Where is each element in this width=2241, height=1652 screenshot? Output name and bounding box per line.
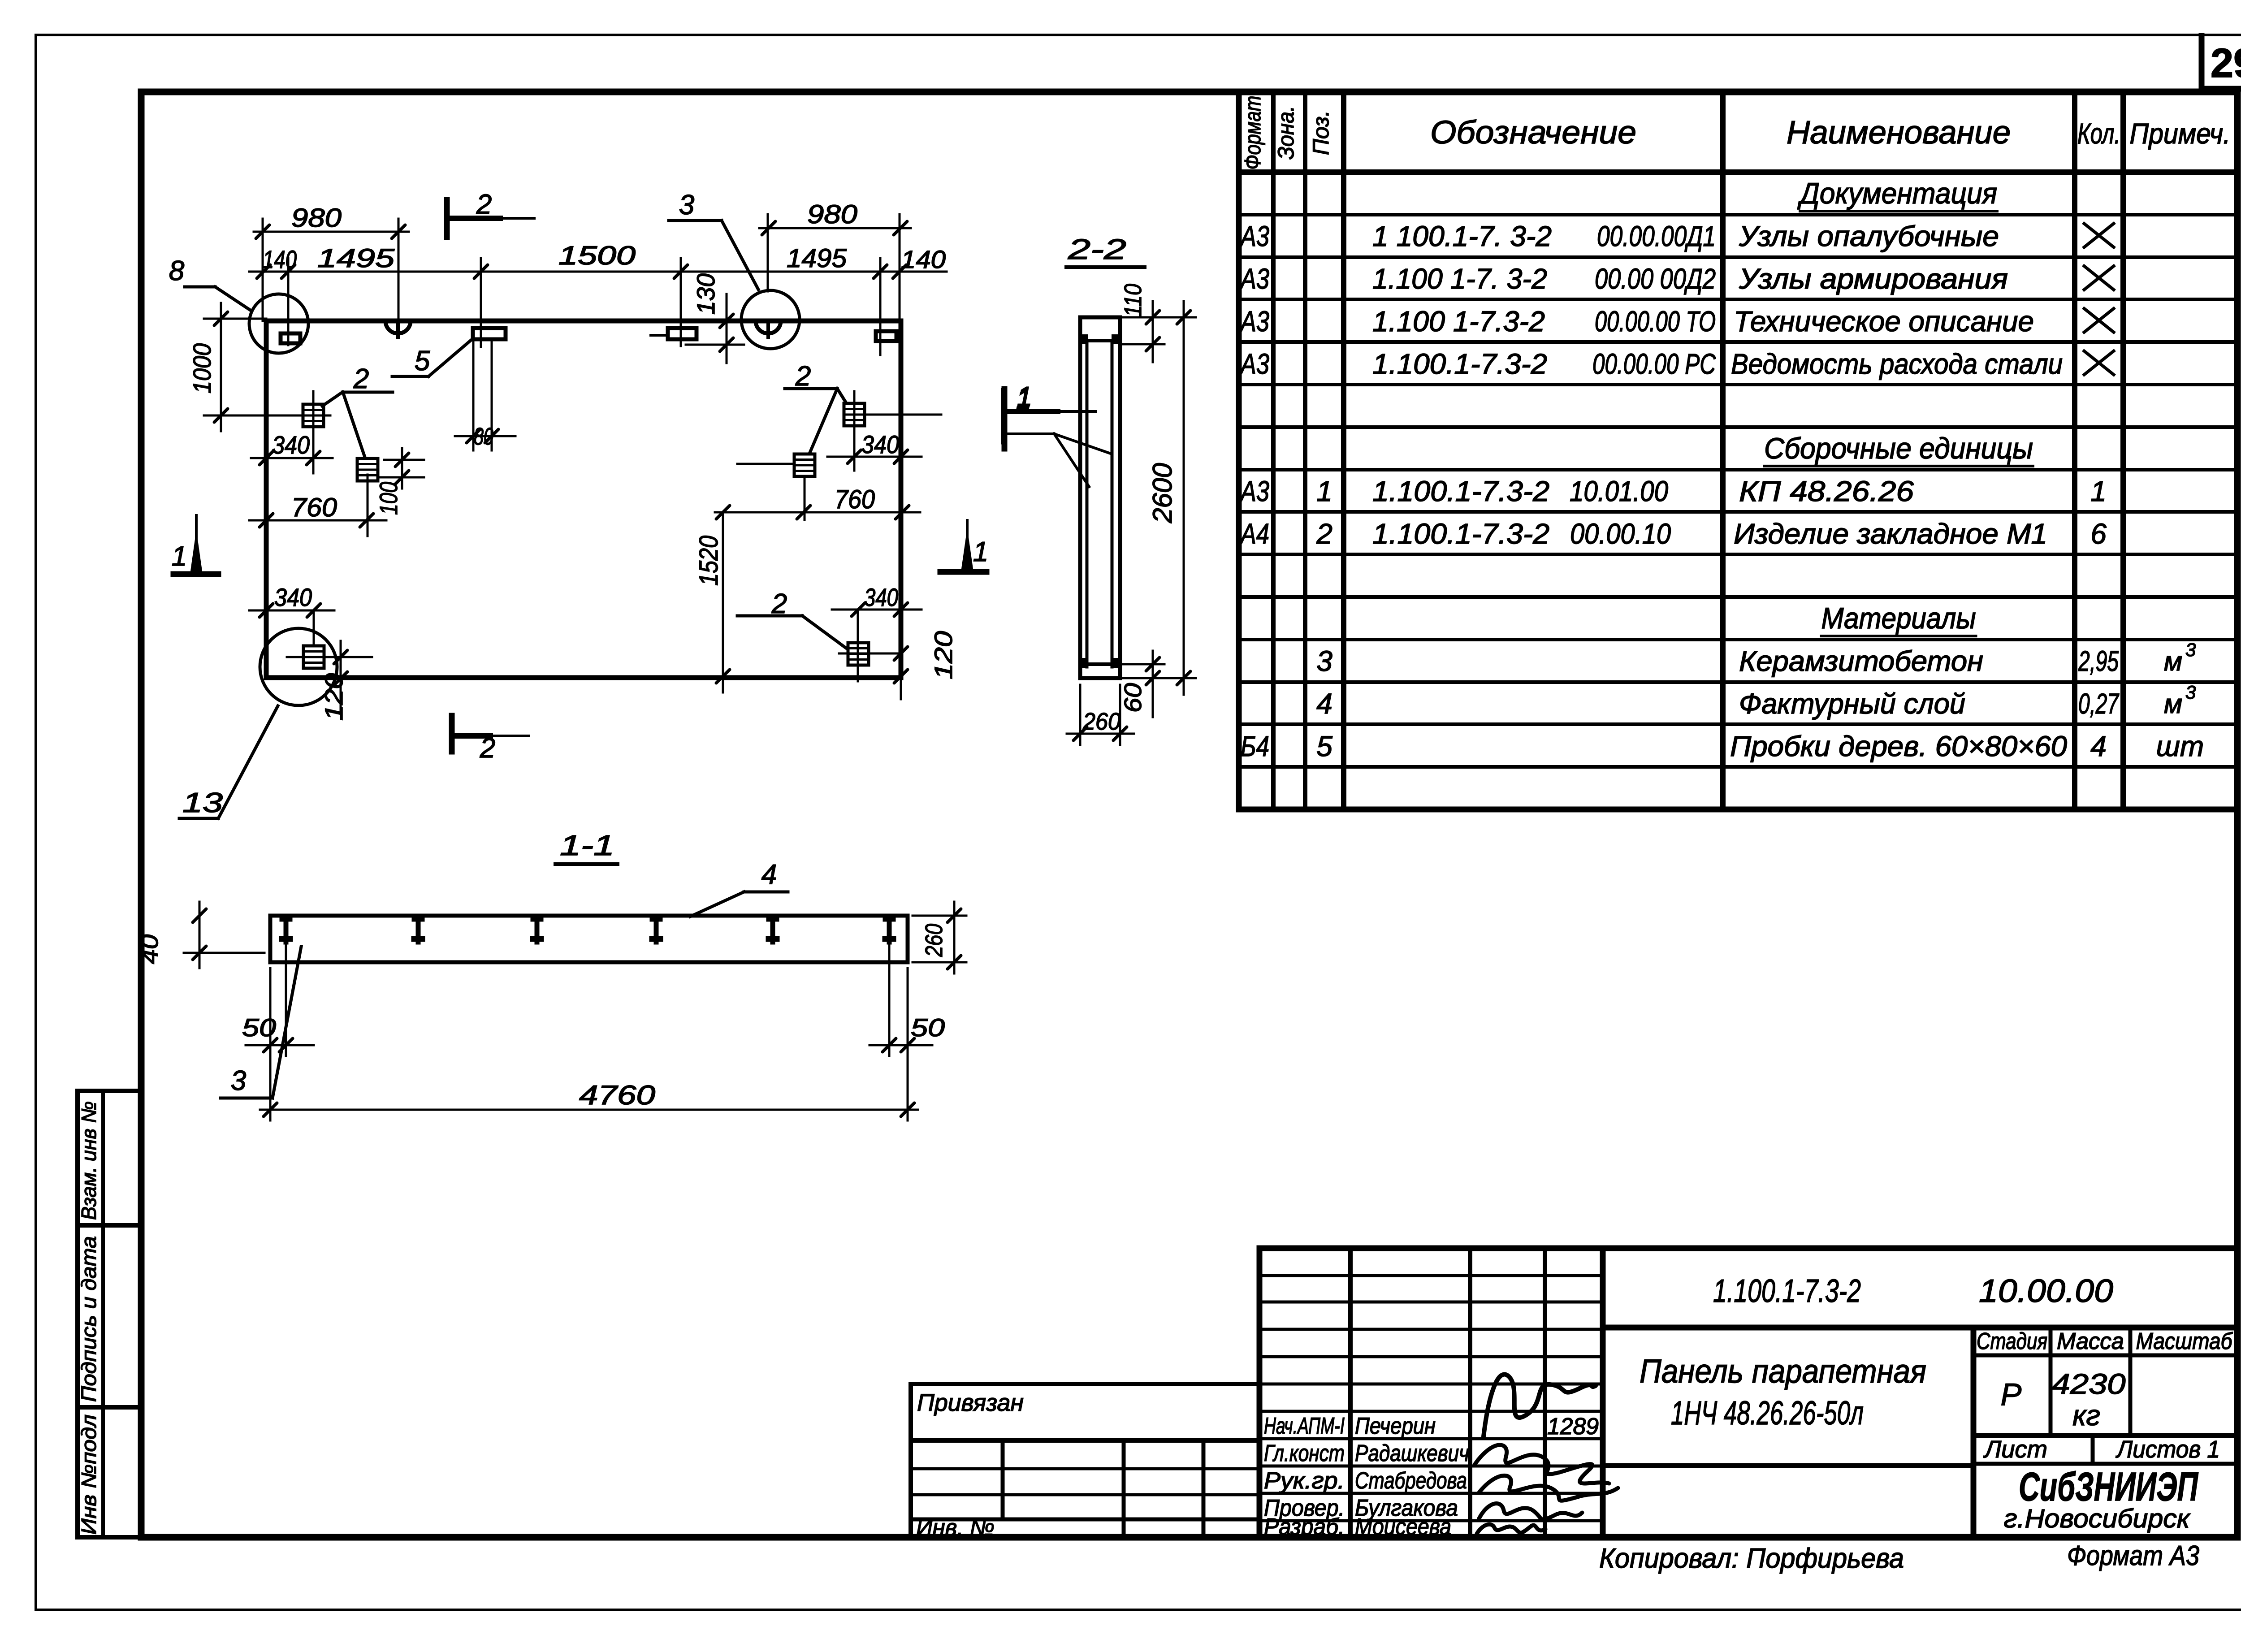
sig grid upper row line 4 [1259, 1355, 1603, 1358]
signature squiggle 4 [1479, 1504, 1582, 1520]
ext line A5 column [313, 610, 315, 644]
hatched anchor A1 [303, 404, 324, 427]
anchor plate pos5 [473, 328, 506, 339]
svg-text:Кол.: Кол. [2077, 117, 2120, 150]
svg-text:Формат: Формат [1240, 96, 1265, 170]
section 1-1 ext right [907, 968, 909, 1120]
svg-text:А3: А3 [1239, 348, 1270, 380]
section 2-2 dim 110 [1152, 301, 1154, 362]
svg-text:А3: А3 [1239, 475, 1270, 507]
svg-text:Панель парапетная: Панель парапетная [1640, 1353, 1926, 1390]
svg-text:Примеч.: Примеч. [2130, 117, 2231, 150]
section 1-1 ext anchor1 [285, 946, 287, 1056]
svg-text:1НЧ 48.26.26-50л: 1НЧ 48.26.26-50л [1671, 1394, 1864, 1431]
svg-text:Печерин: Печерин [1355, 1413, 1436, 1439]
section 2-2 outline [1080, 317, 1120, 678]
svg-text:3: 3 [2185, 682, 2196, 703]
sig grid vertical 2 [1468, 1248, 1472, 1537]
ext line 140L [287, 258, 290, 345]
sig grid lower row line 4 [1259, 1519, 1603, 1522]
svg-text:А3: А3 [1239, 263, 1270, 295]
svg-text:980: 980 [807, 200, 857, 229]
sig grid lower row line 3 [1259, 1492, 1603, 1495]
section 2-2 rebar right [1111, 341, 1114, 667]
title divider under doc number [1603, 1325, 2237, 1331]
frame bottom thick segment [141, 1534, 2237, 1541]
svg-text:1.100.1-7.3-2: 1.100.1-7.3-2 [1372, 475, 1549, 507]
svg-text:2: 2 [1316, 518, 1332, 550]
ext line panel left top [262, 219, 264, 321]
svg-text:Обозначение: Обозначение [1430, 115, 1636, 151]
svg-text:Ведомость расхода стали: Ведомость расхода стали [1731, 348, 2063, 380]
svg-text:10.01.00: 10.01.00 [1570, 475, 1668, 507]
svg-text:260: 260 [1082, 708, 1120, 735]
svg-text:0,27: 0,27 [2078, 688, 2120, 720]
svg-text:2,95: 2,95 [2078, 645, 2119, 677]
svg-text:Привязан: Привязан [917, 1389, 1024, 1416]
svg-text:Листов 1: Листов 1 [2116, 1436, 2220, 1463]
plan panel left edge [264, 321, 269, 678]
svg-text:1: 1 [1316, 475, 1332, 507]
svg-text:50: 50 [911, 1013, 945, 1042]
stadia header bottom [1973, 1354, 2237, 1358]
sig grid vertical 3 [1543, 1248, 1547, 1537]
svg-text:Сборочные единицы: Сборочные единицы [1764, 432, 2033, 465]
dim 130 [726, 294, 728, 363]
svg-text:Масштаб: Масштаб [2136, 1328, 2233, 1354]
Привязан box [911, 1384, 1259, 1440]
spec table column Примеч line [2120, 92, 2126, 809]
stadia column lines [2049, 1328, 2053, 1436]
svg-text:3: 3 [679, 190, 694, 221]
svg-text:1289: 1289 [1547, 1414, 1599, 1440]
plan panel bottom edge [266, 675, 901, 680]
ext line 140R [879, 258, 882, 355]
svg-text:980: 980 [291, 203, 342, 233]
spec table column Зона line [1271, 92, 1276, 809]
hatched anchor A6 [848, 643, 869, 665]
ext line A6 column [857, 610, 859, 681]
svg-text:Стадия: Стадия [1977, 1328, 2047, 1354]
svg-text:Пробки дерев. 60×80×60: Пробки дерев. 60×80×60 [1730, 730, 2067, 762]
svg-text:130: 130 [692, 273, 720, 315]
svg-text:Узлы армирования: Узлы армирования [1739, 263, 2008, 295]
svg-text:Узлы опалубочные: Узлы опалубочные [1739, 220, 1999, 252]
svg-text:Р: Р [2001, 1377, 2022, 1412]
svg-text:А4: А4 [1239, 518, 1269, 550]
svg-text:1: 1 [973, 536, 988, 567]
svg-text:2-2: 2-2 [1068, 233, 1126, 265]
ext line A3 row [865, 414, 941, 416]
svg-text:Инв №подл: Инв №подл [77, 1414, 100, 1535]
hatched anchor A3 [844, 403, 865, 426]
sig grid upper row line 2 [1259, 1301, 1603, 1304]
svg-text:760: 760 [291, 493, 337, 522]
svg-text:Копировал: Порфирьева: Копировал: Порфирьева [1599, 1543, 1904, 1574]
ext line 80 dim [455, 435, 515, 437]
section 2-2 dim 60 [1152, 651, 1154, 717]
page number box [2199, 36, 2205, 92]
svg-text:00.00.10: 00.00.10 [1570, 518, 1671, 550]
dim 340 left top [251, 457, 333, 459]
svg-text:3: 3 [1316, 645, 1332, 677]
spec table column Обозначение line [1341, 92, 1346, 809]
svg-text:60: 60 [1120, 683, 1146, 713]
detail circle 3 [741, 290, 800, 349]
svg-text:4: 4 [2090, 730, 2107, 762]
signature squiggle 3 [1479, 1475, 1618, 1501]
section 1-1 slab outline [270, 916, 908, 962]
Лист row bottom [1973, 1462, 2237, 1466]
svg-text:140: 140 [901, 245, 946, 273]
ext line A2 column [367, 475, 369, 536]
svg-text:Б4: Б4 [1241, 730, 1269, 762]
sig grid lower row line 2 [1259, 1465, 1603, 1468]
svg-text:кг: кг [2072, 1399, 2100, 1431]
spec table column Кол line [2072, 92, 2077, 809]
section 1-1 dim 50 left [246, 1044, 314, 1047]
svg-text:А3: А3 [1239, 305, 1270, 337]
section 2-2 dim 2600 [1183, 301, 1185, 695]
title name cell bottom line [1603, 1463, 1973, 1468]
svg-text:2: 2 [353, 363, 369, 394]
svg-text:м: м [2164, 646, 2182, 676]
svg-text:4230: 4230 [2052, 1368, 2126, 1400]
detail circle 13 [260, 628, 337, 705]
ext line A1 center column [312, 391, 315, 473]
svg-text:м: м [2164, 689, 2182, 719]
svg-text:3: 3 [2185, 639, 2196, 660]
hatched anchor A4 [794, 454, 815, 476]
dim 120 left [340, 641, 342, 714]
svg-text:120: 120 [320, 673, 348, 721]
dim 100 [401, 448, 403, 489]
svg-text:Наименование: Наименование [1787, 115, 2011, 151]
Лист divider [2091, 1436, 2095, 1464]
section 2-2 rebar left [1086, 341, 1089, 667]
svg-text:Масса: Масса [2057, 1328, 2124, 1354]
sig grid upper row line 3 [1259, 1328, 1603, 1331]
dim 340 right top [827, 456, 921, 458]
section 1-1 anchor 3 [535, 917, 540, 942]
section 2-2 dim 260 [1067, 733, 1134, 735]
svg-text:8: 8 [169, 255, 185, 286]
svg-text:13: 13 [182, 787, 223, 818]
ext line anchor A1 row [204, 415, 330, 417]
svg-text:1000: 1000 [188, 343, 216, 394]
svg-text:1 100.1-7. 3-2: 1 100.1-7. 3-2 [1372, 220, 1552, 252]
svg-text:5: 5 [415, 346, 430, 376]
svg-text:Керамзитобетон: Керамзитобетон [1739, 645, 1983, 677]
svg-text:Гл.конст: Гл.конст [1264, 1440, 1345, 1466]
signature squiggle 2 [1475, 1445, 1609, 1483]
svg-text:340: 340 [861, 430, 899, 458]
svg-text:1.100.1-7.3-2: 1.100.1-7.3-2 [1372, 348, 1547, 380]
svg-text:Изделие закладное М1: Изделие закладное М1 [1734, 518, 2047, 550]
sig grid right edge [1600, 1248, 1606, 1537]
ext line A4 row [737, 463, 792, 465]
svg-text:340: 340 [864, 583, 898, 611]
hatched anchor A2 [357, 458, 378, 481]
section 1-1 ext left [269, 968, 272, 1120]
left stamp Взам инв № [78, 1091, 142, 1225]
spec table outer [1236, 92, 1242, 809]
section mark 2 top [444, 200, 450, 237]
ext line panel top leftwards [204, 318, 266, 320]
dim 980 left line [254, 231, 409, 233]
svg-text:00.00.00Д1: 00.00.00Д1 [1597, 220, 1716, 252]
ext line A6 row [839, 653, 897, 655]
plan notch left [385, 321, 411, 333]
svg-text:760: 760 [835, 485, 875, 514]
svg-text:340: 340 [272, 431, 310, 459]
svg-text:80: 80 [474, 423, 493, 450]
left stamp Инв № подл [78, 1407, 142, 1537]
svg-text:Рук.гр.: Рук.гр. [1264, 1468, 1345, 1494]
ext line A5 row [287, 656, 372, 658]
section 1-1 anchor 1 [284, 917, 289, 942]
svg-text:2600: 2600 [1147, 463, 1177, 523]
ext line notch right vertical [767, 214, 769, 291]
dim 340 left bottom [249, 610, 334, 612]
svg-text:1.100.1-7.3-2: 1.100.1-7.3-2 [1713, 1273, 1861, 1309]
svg-text:1.100 1-7.3-2: 1.100 1-7.3-2 [1372, 305, 1545, 337]
svg-text:Материалы: Материалы [1821, 601, 1976, 635]
svg-text:Нач.АПМ-I: Нач.АПМ-I [1264, 1413, 1345, 1439]
spec table header bottom line [1239, 169, 2237, 175]
spec table column Наименование line [1720, 92, 1726, 809]
svg-text:КП 48.26.26: КП 48.26.26 [1739, 475, 1914, 507]
dim 980 right line [759, 227, 911, 229]
dim 340 right bottom [832, 609, 921, 611]
svg-text:1495: 1495 [317, 244, 395, 273]
section 1-1 dim 50 right [870, 1044, 932, 1047]
plan notch right [756, 321, 781, 333]
stadia row bottom [1973, 1433, 2237, 1438]
svg-text:Зона.: Зона. [1273, 106, 1298, 160]
section 1-1 anchor 5 [770, 917, 775, 942]
detail circle 8 [249, 294, 308, 353]
svg-text:110: 110 [1120, 284, 1146, 317]
svg-text:Взам. инв №: Взам. инв № [77, 1101, 100, 1220]
spec table row lines [1239, 213, 2237, 216]
svg-text:А3: А3 [1239, 220, 1270, 252]
spec table column Поз line [1303, 92, 1307, 809]
section 1-1 anchor 4 [654, 917, 659, 942]
section 1-1 dim 40 [199, 902, 201, 968]
svg-text:40: 40 [136, 934, 163, 964]
plan panel right edge [899, 321, 904, 678]
svg-text:1520: 1520 [694, 536, 723, 586]
svg-text:00.00 00Д2: 00.00 00Д2 [1595, 263, 1716, 295]
signature squiggle 5 [1477, 1524, 1545, 1534]
title block top line [1259, 1245, 2237, 1251]
dim 120 right [894, 647, 908, 660]
hatched anchor A5 [303, 646, 324, 668]
section mark 1 left [173, 571, 218, 577]
ext line right edge down [900, 431, 902, 699]
sig grid lower row line 1 [1259, 1437, 1603, 1440]
svg-text:340: 340 [274, 583, 312, 611]
svg-text:2: 2 [480, 733, 495, 764]
svg-text:6: 6 [2090, 518, 2107, 550]
svg-text:4: 4 [761, 859, 777, 890]
svg-text:1495: 1495 [787, 244, 847, 273]
section 1-1 anchor 2 [416, 917, 421, 942]
svg-text:1.100.1-7.3-2: 1.100.1-7.3-2 [1372, 518, 1549, 550]
sig grid vertical 1 [1348, 1248, 1353, 1537]
svg-text:Подпись и дата: Подпись и дата [77, 1236, 100, 1402]
dim 760 right [715, 511, 920, 514]
section 1-1 anchor 6 [887, 917, 892, 942]
sig grid upper row line 6 [1259, 1410, 1603, 1413]
svg-text:140: 140 [263, 245, 297, 273]
title vertical divider right of name [1971, 1328, 1977, 1537]
svg-text:5: 5 [1316, 730, 1332, 762]
ext line 1500R [680, 258, 682, 346]
ext line left edge down [265, 431, 268, 678]
svg-text:шт: шт [2156, 730, 2204, 762]
anchor plate right [876, 331, 896, 341]
svg-text:1: 1 [1016, 384, 1031, 415]
dim 1000 [220, 303, 222, 431]
svg-text:г.Новосибирск: г.Новосибирск [2004, 1504, 2191, 1533]
svg-text:Формат А3: Формат А3 [2067, 1540, 2199, 1571]
anchor plate in circle 8 [281, 333, 300, 343]
section 1-1 ext anchor6 [888, 946, 891, 1056]
signature flourish big [1484, 1375, 1596, 1436]
ext line 1495L [480, 258, 482, 347]
svg-text:Техническое описание: Техническое описание [1734, 305, 2034, 337]
svg-text:1-1: 1-1 [560, 829, 614, 861]
svg-text:260: 260 [921, 924, 947, 957]
sig grid upper row line 1 [1259, 1274, 1603, 1277]
section 2-2 bottom bar [1082, 662, 1118, 666]
svg-text:100: 100 [374, 482, 402, 515]
svg-text:1: 1 [2090, 475, 2107, 507]
anchor plate mid-right [668, 328, 697, 339]
svg-text:Радашкевич: Радашкевич [1355, 1440, 1469, 1466]
dim row 140-1495-1500-1495-140 line [249, 271, 947, 273]
svg-text:3: 3 [231, 1065, 246, 1096]
section mark 2 bottom [449, 716, 455, 752]
svg-text:Поз.: Поз. [1308, 110, 1333, 155]
svg-text:29: 29 [2211, 40, 2241, 86]
lower-left grid columns [1001, 1440, 1005, 1519]
svg-text:Лист: Лист [1983, 1436, 2047, 1463]
dim 1520 [722, 512, 724, 692]
lower-left grid outline [909, 1440, 913, 1537]
svg-text:Стабредова: Стабредова [1355, 1468, 1467, 1494]
section 1-1 dim 260 [953, 902, 956, 973]
section 2-2 top bar [1082, 339, 1118, 342]
svg-text:Документация: Документация [1797, 177, 1997, 210]
svg-text:00.00.00 ТО: 00.00.00 ТО [1595, 305, 1716, 337]
section mark 1 right-upper [1002, 389, 1008, 449]
svg-text:1.100 1-7. 3-2: 1.100 1-7. 3-2 [1372, 263, 1547, 295]
left stamp Подпись и дата [78, 1225, 142, 1407]
svg-text:4760: 4760 [579, 1080, 655, 1110]
svg-text:120: 120 [929, 631, 957, 679]
svg-text:00.00.00 РС: 00.00.00 РС [1592, 348, 1716, 380]
section 1-1 dim 4760 [260, 1109, 918, 1111]
title block left edge [1257, 1248, 1263, 1537]
section mark 1 right-lower [940, 569, 986, 575]
lower-left grid rows [911, 1467, 1259, 1470]
svg-text:1: 1 [172, 541, 187, 572]
svg-text:2: 2 [476, 189, 492, 220]
ext line panel right top [899, 214, 901, 321]
svg-text:СибЗНИИЭП: СибЗНИИЭП [2019, 1465, 2199, 1509]
ext line A3 column [853, 391, 856, 471]
plan panel top edge [266, 319, 901, 324]
svg-text:4: 4 [1316, 688, 1332, 720]
svg-text:1500: 1500 [558, 241, 636, 270]
svg-text:Фактурный слой: Фактурный слой [1739, 688, 1965, 720]
sig grid upper row line 5 [1259, 1383, 1603, 1386]
svg-text:10.00.00: 10.00.00 [1979, 1273, 2113, 1309]
ext line notch left [398, 219, 400, 321]
ext line A4 column [804, 478, 806, 520]
dim 760 left [249, 519, 386, 522]
